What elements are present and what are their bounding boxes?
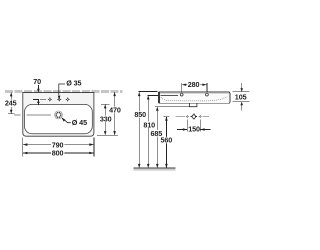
tap hole centerline dash <box>40 99 46 101</box>
dimension 800 <box>23 149 94 158</box>
extension line 685 (drain fitting bottom) <box>155 106 189 108</box>
dimension 560 <box>160 117 173 168</box>
floor line <box>134 168 176 171</box>
wall hole marker left (diamond) <box>186 115 190 119</box>
deck line inside bar <box>160 95 177 97</box>
bowl inner outline (top view) <box>25 104 93 133</box>
dimension 280 <box>182 80 207 91</box>
svg-text:800: 800 <box>52 149 64 158</box>
svg-text:70: 70 <box>33 77 41 86</box>
dimension 245 <box>4 92 18 114</box>
wall hole symbol center <box>191 114 197 120</box>
wall hole centerline (dash-dot) <box>176 116 209 118</box>
dimension 105 <box>233 83 250 110</box>
front edge extension line <box>97 134 118 136</box>
svg-text:150: 150 <box>188 125 200 134</box>
dimension 330 <box>99 104 112 135</box>
drain symbol <box>55 111 63 119</box>
svg-text:850: 850 <box>134 110 146 119</box>
dimension 790 <box>23 140 94 149</box>
tap hole right (elevation) <box>206 93 209 96</box>
label Ø 35 with leader <box>57 78 82 101</box>
svg-text:105: 105 <box>235 92 247 101</box>
dimension 850 <box>134 92 147 168</box>
dimension 685 <box>150 107 163 168</box>
bar left end cap (thick edge) <box>158 92 160 103</box>
label Ø 45 with leader <box>61 117 87 127</box>
svg-text:280: 280 <box>188 80 200 89</box>
svg-text:Ø 45: Ø 45 <box>72 118 87 127</box>
svg-text:Ø 35: Ø 35 <box>66 78 81 87</box>
right extension line bottom dims <box>93 138 95 157</box>
svg-text:330: 330 <box>100 114 112 123</box>
wall line (top view, dashed) <box>5 91 122 92</box>
dimension 150 <box>177 119 211 133</box>
right tap hole marker (diamond) <box>65 97 70 102</box>
dimension 70 <box>33 77 41 105</box>
extension line 810 (deck level) <box>147 94 157 96</box>
dimension 810 <box>143 95 156 168</box>
wall hole marker right (diamond) <box>198 115 202 119</box>
drain fitting below bar <box>190 103 197 106</box>
left extension line bottom dims <box>22 138 24 157</box>
bowl profile dashed curve <box>161 97 228 101</box>
extension line 850 (bar top) <box>138 90 157 92</box>
extension tick 560 <box>163 116 169 118</box>
dimension 470 <box>109 92 122 135</box>
left tap hole marker (diamond) <box>48 97 53 102</box>
drain centerline dashes <box>14 114 51 116</box>
basin outer outline (top view) <box>23 93 94 137</box>
svg-text:245: 245 <box>5 99 17 108</box>
basin bar outline <box>158 92 230 103</box>
svg-text:470: 470 <box>109 105 121 114</box>
tap hole left (elevation) <box>180 93 183 96</box>
svg-text:560: 560 <box>161 136 173 145</box>
